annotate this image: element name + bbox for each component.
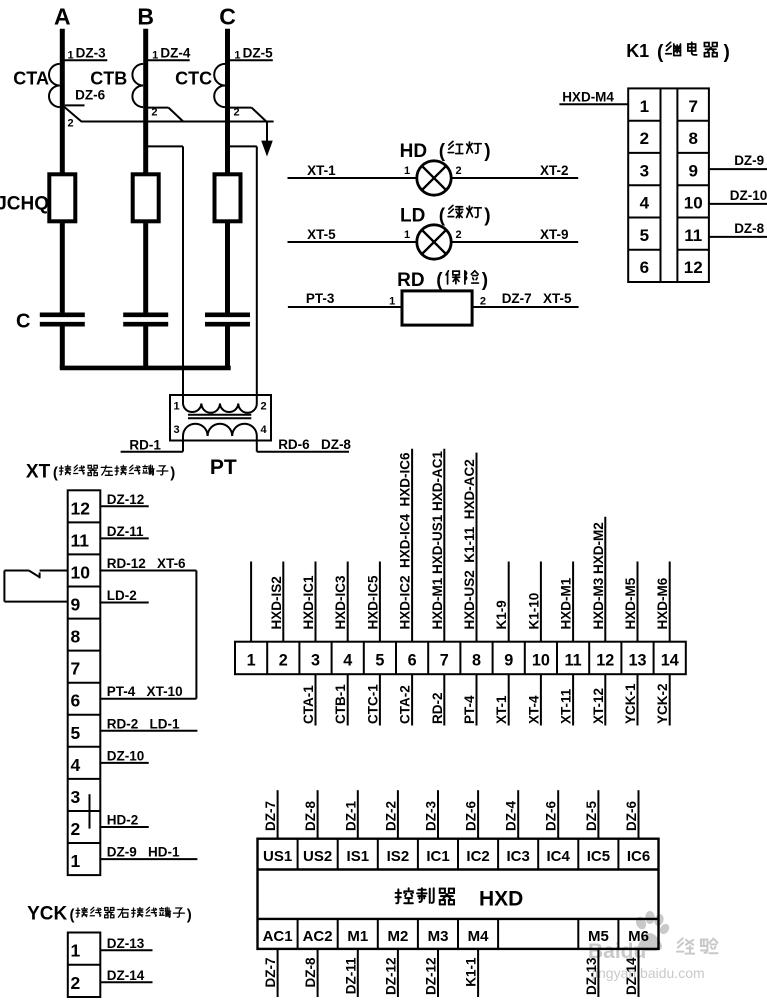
svg-text:M4: M4 xyxy=(468,928,489,945)
svg-text:8: 8 xyxy=(688,129,697,148)
resistor JCHQ block phase C xyxy=(215,174,241,221)
svg-text:RD-2: RD-2 xyxy=(430,692,445,724)
svg-text:): ) xyxy=(187,907,192,924)
svg-text:): ) xyxy=(482,270,488,291)
wire branch B horizontal xyxy=(146,145,183,147)
transformer PT core xyxy=(188,414,251,416)
svg-text:13: 13 xyxy=(628,651,646,669)
svg-text:9: 9 xyxy=(504,651,513,669)
svg-text:11: 11 xyxy=(684,226,702,245)
svg-text:DZ-1: DZ-1 xyxy=(343,801,358,831)
svg-text:HD-2: HD-2 xyxy=(107,813,139,828)
svg-text:3: 3 xyxy=(173,424,179,436)
wire bracket XT10 to XT6 xyxy=(195,571,197,699)
svg-text:CTA: CTA xyxy=(13,69,49,89)
wire phase A vertical line xyxy=(60,29,65,314)
svg-text:9: 9 xyxy=(688,161,697,180)
svg-text:IC2: IC2 xyxy=(466,848,489,865)
wire HXD top DZ-5 xyxy=(597,790,599,839)
wire HXD top DZ-3 xyxy=(437,790,439,839)
svg-text:DZ-7: DZ-7 xyxy=(263,958,278,988)
svg-text:DZ-9: DZ-9 xyxy=(734,153,764,168)
wire branch B vertical to PT pin1 xyxy=(182,146,184,403)
wire CT pin2 tap xyxy=(146,107,169,109)
wire XT cell 12 DZ-12 xyxy=(100,505,148,507)
svg-text:): ) xyxy=(484,205,490,226)
svg-text:DZ-5: DZ-5 xyxy=(243,45,273,60)
wire connector pin 8 lower xyxy=(476,674,478,725)
svg-text:K1-10: K1-10 xyxy=(526,593,541,630)
wire HXD bottom K1-1 xyxy=(477,949,479,997)
wire XT cell 9 LD-2 xyxy=(100,602,148,604)
wire RD-6 DZ-8 xyxy=(257,451,349,453)
wire HD to XT-2 xyxy=(451,177,578,179)
switch between XT10 and XT9 xyxy=(4,570,29,572)
svg-text:DZ-9 HD-1: DZ-9 HD-1 xyxy=(107,845,180,860)
svg-text:RD-6 DZ-8: RD-6 DZ-8 xyxy=(278,437,351,452)
wire PT pin3 stub xyxy=(182,436,184,452)
svg-text:HXD-IC1: HXD-IC1 xyxy=(301,575,316,629)
wire connector pin 4 upper xyxy=(347,562,349,642)
wire connector pin 3 lower xyxy=(315,674,317,725)
wire CTA slant to bus xyxy=(64,106,82,121)
svg-text:6: 6 xyxy=(640,258,649,277)
wire connector pin 12 lower xyxy=(604,674,606,725)
svg-text:XT-9: XT-9 xyxy=(540,227,569,242)
resistor JCHQ block phase A xyxy=(49,174,75,221)
svg-text:(: ( xyxy=(439,205,446,226)
wire HXD bottom DZ-7 xyxy=(277,949,279,997)
svg-text:2: 2 xyxy=(71,819,81,839)
svg-text:PT: PT xyxy=(210,456,237,479)
wire YCK1 DZ-13 xyxy=(100,949,152,951)
wire slant to bus xyxy=(252,108,267,122)
transformer CTC coil arcs xyxy=(214,64,225,107)
svg-text:RD-2 LD-1: RD-2 LD-1 xyxy=(107,716,180,731)
lamp LD circle xyxy=(417,225,451,259)
wire connector pin 4 lower xyxy=(347,674,349,725)
wire HXD top DZ-8 xyxy=(317,790,319,839)
wire HXD bottom DZ-11 xyxy=(357,949,359,997)
wire connector pin 8 upper xyxy=(476,453,478,642)
wire HXD top DZ-7 xyxy=(277,790,279,839)
wire YCK2 DZ-14 xyxy=(100,981,152,983)
svg-text:7: 7 xyxy=(440,651,449,669)
svg-text:3: 3 xyxy=(640,161,649,180)
svg-text:XT: XT xyxy=(26,461,51,482)
svg-text:1: 1 xyxy=(173,400,179,412)
svg-text:PT-4: PT-4 xyxy=(462,695,477,724)
svg-text:DZ-10: DZ-10 xyxy=(107,748,145,763)
svg-text:XT-4: XT-4 xyxy=(526,695,541,724)
wire connector pin 11 upper xyxy=(572,562,574,642)
wire HXD top DZ-6 xyxy=(557,790,559,839)
wire connector pin 5 lower xyxy=(379,674,381,725)
svg-text:3: 3 xyxy=(311,651,320,669)
svg-text:DZ-14: DZ-14 xyxy=(624,957,639,995)
wire connector pin 2 upper xyxy=(282,562,284,642)
svg-text:RD-12 XT-6: RD-12 XT-6 xyxy=(107,556,186,571)
svg-text:DZ-12: DZ-12 xyxy=(383,958,398,996)
svg-text:DZ-3: DZ-3 xyxy=(76,45,106,60)
svg-text:12: 12 xyxy=(684,258,703,277)
relay K1 body xyxy=(628,88,709,282)
svg-text:DZ-13: DZ-13 xyxy=(584,957,599,995)
transformer PT box xyxy=(170,395,271,441)
wire HXD bottom DZ-14 xyxy=(638,949,640,997)
svg-text:YCK-1: YCK-1 xyxy=(623,683,638,724)
svg-text:): ) xyxy=(170,464,175,481)
svg-text:8: 8 xyxy=(472,651,481,669)
wire connector pin 9 lower xyxy=(508,674,510,725)
svg-text:DZ-4: DZ-4 xyxy=(504,801,519,831)
wire K1 pin9 DZ-9 xyxy=(709,168,767,170)
svg-text:2: 2 xyxy=(640,129,649,148)
svg-text:DZ-11: DZ-11 xyxy=(107,524,144,539)
svg-text:2: 2 xyxy=(151,107,157,119)
svg-text:HXD-M5: HXD-M5 xyxy=(623,577,638,629)
svg-text:DZ-6: DZ-6 xyxy=(464,801,479,831)
svg-text:12: 12 xyxy=(71,498,91,518)
lamp HD cross xyxy=(422,166,446,190)
wire HXD bottom DZ-13 xyxy=(597,949,599,997)
svg-text:HXD-M6: HXD-M6 xyxy=(655,577,670,629)
svg-text:YCK-2: YCK-2 xyxy=(655,683,670,724)
svg-text:B: B xyxy=(137,4,154,30)
wire connector pin 1 upper xyxy=(250,562,252,642)
svg-text:1: 1 xyxy=(234,50,240,62)
svg-text:1: 1 xyxy=(247,651,256,669)
wire RD to DZ-7 XT-5 xyxy=(472,306,578,308)
wire connector pin 14 lower xyxy=(669,674,671,725)
svg-text:5: 5 xyxy=(71,723,81,743)
svg-text:IC1: IC1 xyxy=(426,848,449,865)
svg-text:): ) xyxy=(724,42,730,63)
svg-text:XT-5: XT-5 xyxy=(307,227,336,242)
wire CT pin2 tap xyxy=(228,107,252,109)
svg-text:2: 2 xyxy=(456,229,462,241)
svg-text:10: 10 xyxy=(71,563,91,583)
svg-text:2: 2 xyxy=(233,107,239,119)
svg-text:K1: K1 xyxy=(626,41,649,61)
svg-text:4: 4 xyxy=(71,755,81,775)
wire branch C vertical to PT pin2 xyxy=(256,146,258,403)
lamp LD cross xyxy=(422,230,446,254)
wire connector pin 13 upper xyxy=(637,562,639,642)
svg-text:PT-3: PT-3 xyxy=(306,291,335,306)
svg-text:DZ-7: DZ-7 xyxy=(263,801,278,831)
svg-text:2: 2 xyxy=(456,165,462,177)
svg-text:2: 2 xyxy=(279,651,288,669)
svg-text:HXD-IC5: HXD-IC5 xyxy=(365,575,380,629)
wire LD to XT-9 xyxy=(451,241,578,243)
svg-text:1: 1 xyxy=(404,229,410,241)
svg-text:1: 1 xyxy=(67,50,73,62)
svg-text:4: 4 xyxy=(343,651,352,669)
transformer PT primary winding xyxy=(183,404,257,413)
svg-text:jingyan.baidu.com: jingyan.baidu.com xyxy=(591,965,705,981)
wire HXD top DZ-4 xyxy=(517,790,519,839)
svg-text:DZ-6: DZ-6 xyxy=(75,88,105,103)
jumper XT3 to XT2 xyxy=(89,794,91,828)
lamp HD circle xyxy=(417,161,451,195)
svg-text:11: 11 xyxy=(565,651,582,669)
wire XT-5 to LD xyxy=(288,241,417,243)
svg-text:IC6: IC6 xyxy=(627,848,650,865)
svg-text:XT-11: XT-11 xyxy=(559,688,574,724)
svg-text:IC3: IC3 xyxy=(507,848,530,865)
transformer PT secondary winding xyxy=(183,424,257,436)
svg-text:C: C xyxy=(16,310,30,332)
wire branch C horizontal xyxy=(228,145,257,147)
wire CTC pin1 tap to DZ-5 xyxy=(228,59,273,61)
svg-text:4: 4 xyxy=(640,194,650,213)
wire PT-3 to RD xyxy=(288,306,402,308)
svg-text:7: 7 xyxy=(71,659,81,679)
wire connector pin 6 lower xyxy=(411,674,413,725)
svg-text:XT-12: XT-12 xyxy=(591,688,606,724)
svg-text:5: 5 xyxy=(640,226,649,245)
svg-text:2: 2 xyxy=(68,117,74,129)
svg-text:6: 6 xyxy=(408,651,417,669)
wire connector pin 10 upper xyxy=(540,562,542,642)
decorative watermark (not labeled further) xyxy=(588,911,717,981)
svg-text:RD: RD xyxy=(397,270,424,291)
svg-text:10: 10 xyxy=(684,194,703,213)
terminal strip XT body xyxy=(68,490,101,875)
wire switch loop left xyxy=(3,571,5,602)
svg-text:DZ-3: DZ-3 xyxy=(424,801,439,831)
capacitor phase A xyxy=(40,312,85,317)
svg-text:AC1: AC1 xyxy=(263,928,293,945)
svg-text:CTC-1: CTC-1 xyxy=(365,684,380,724)
svg-text:LD-2: LD-2 xyxy=(107,588,137,603)
svg-text:1: 1 xyxy=(404,165,410,177)
svg-text:DZ-6: DZ-6 xyxy=(624,801,639,831)
svg-text:1: 1 xyxy=(389,296,395,308)
svg-text:CTB-1: CTB-1 xyxy=(333,684,348,724)
svg-text:C: C xyxy=(219,4,236,30)
svg-text:US2: US2 xyxy=(303,848,332,865)
svg-text:K1-9: K1-9 xyxy=(494,600,509,629)
svg-text:IS1: IS1 xyxy=(347,848,370,865)
wire CTA pin1 tap to DZ-3 xyxy=(62,59,107,61)
svg-text:1: 1 xyxy=(71,851,81,871)
svg-text:DZ-8: DZ-8 xyxy=(303,801,318,831)
svg-text:XT-1: XT-1 xyxy=(307,163,336,178)
wire XT cell 1 DZ-9 HD-1 xyxy=(100,858,197,860)
svg-text:DZ-4: DZ-4 xyxy=(160,45,190,60)
svg-text:DZ-8: DZ-8 xyxy=(303,957,318,987)
transformer CTA coil arcs xyxy=(49,64,60,107)
svg-text:(: ( xyxy=(439,141,446,162)
terminal strip YCK body xyxy=(68,933,101,998)
wire phase C vertical line xyxy=(225,29,230,314)
capacitor phase B xyxy=(123,312,168,317)
fuse RD body xyxy=(402,291,472,325)
wire HXD top DZ-6 xyxy=(638,790,640,839)
svg-text:5: 5 xyxy=(375,651,384,669)
svg-text:LD: LD xyxy=(400,205,425,226)
resistor JCHQ block phase B xyxy=(133,174,159,221)
svg-text:DZ-2: DZ-2 xyxy=(383,801,398,831)
wire bottom bus xyxy=(60,366,231,371)
wire HXD bottom DZ-12 xyxy=(437,949,439,997)
wire HXD top DZ-1 xyxy=(357,790,359,839)
svg-text:PT-4 XT-10: PT-4 XT-10 xyxy=(107,684,183,699)
svg-text:8: 8 xyxy=(71,627,81,647)
svg-text:1: 1 xyxy=(71,941,81,961)
wire HXD-M4 to K1 pin1 xyxy=(559,103,628,105)
wire CTA pin2 tap DZ-6 xyxy=(65,104,85,106)
controller HXD outer body xyxy=(258,839,659,949)
wire connector pin 9 upper xyxy=(508,562,510,642)
svg-text:7: 7 xyxy=(688,97,697,116)
controller HXD name chinese xyxy=(396,888,413,903)
wire XT-1 to HD xyxy=(288,177,417,179)
svg-text:3: 3 xyxy=(71,787,81,807)
capacitor phase C xyxy=(205,312,250,317)
wire connector pin 14 upper xyxy=(669,562,671,642)
svg-text:2: 2 xyxy=(480,296,486,308)
svg-text:DZ-14: DZ-14 xyxy=(107,968,145,983)
wire connector pin 5 upper xyxy=(379,562,381,642)
wire XT cell 6 PT-4 XT-10 xyxy=(100,698,196,700)
svg-text:2: 2 xyxy=(260,400,266,412)
svg-text:(: ( xyxy=(70,907,75,924)
ground arrow head xyxy=(261,141,273,157)
svg-text:HD: HD xyxy=(400,141,427,162)
svg-text:DZ-6: DZ-6 xyxy=(544,801,559,831)
svg-text:HXD-US2 K1-11 HXD-AC2: HXD-US2 K1-11 HXD-AC2 xyxy=(462,459,477,629)
wire connector pin 7 upper xyxy=(443,449,445,642)
wire XT cell 11 DZ-11 xyxy=(100,537,148,539)
svg-text:9: 9 xyxy=(71,595,81,615)
svg-text:AC2: AC2 xyxy=(303,928,333,945)
svg-text:12: 12 xyxy=(596,651,614,669)
svg-text:A: A xyxy=(54,4,71,30)
wire HXD bottom DZ-8 xyxy=(317,949,319,997)
wire K1 pin11 DZ-8 xyxy=(709,236,767,238)
svg-text:CTA-2: CTA-2 xyxy=(398,685,413,724)
svg-text:DZ-12: DZ-12 xyxy=(107,492,145,507)
svg-text:XT-2: XT-2 xyxy=(540,163,569,178)
svg-text:6: 6 xyxy=(71,691,81,711)
svg-text:US1: US1 xyxy=(263,848,292,865)
wire connector pin 6 upper xyxy=(411,449,413,642)
wire XT cell 10 RD-12 XT-6 xyxy=(100,570,196,572)
svg-text:M2: M2 xyxy=(387,928,408,945)
svg-text:IC5: IC5 xyxy=(587,848,610,865)
wire CT secondary bus xyxy=(81,121,274,123)
svg-text:HXD-M1 HXD-US1 HXD-AC1: HXD-M1 HXD-US1 HXD-AC1 xyxy=(430,450,445,629)
svg-text:IC4: IC4 xyxy=(547,848,571,865)
wire connector pin 7 lower xyxy=(443,674,445,725)
transformer CTB coil arcs xyxy=(132,64,143,107)
svg-text:YCK: YCK xyxy=(27,904,67,925)
svg-text:JCHQ: JCHQ xyxy=(0,194,49,215)
svg-text:CTC: CTC xyxy=(175,69,212,89)
svg-text:HXD-IS2: HXD-IS2 xyxy=(269,576,284,629)
svg-text:M5: M5 xyxy=(588,928,609,945)
svg-text:1: 1 xyxy=(640,97,649,116)
svg-text:M1: M1 xyxy=(347,928,368,945)
svg-text:CTA-1: CTA-1 xyxy=(301,685,316,724)
wire connector pin 10 lower xyxy=(540,674,542,725)
wire connector pin 13 lower xyxy=(637,674,639,725)
svg-text:IS2: IS2 xyxy=(387,848,410,865)
wire connector pin 12 upper xyxy=(604,517,606,642)
svg-text:DZ-10: DZ-10 xyxy=(730,188,767,203)
svg-text:M6: M6 xyxy=(628,928,649,945)
wire connector pin 11 lower xyxy=(572,674,574,725)
connector 14-pin body xyxy=(235,642,686,675)
svg-text:DZ-12: DZ-12 xyxy=(424,958,439,996)
svg-text:M3: M3 xyxy=(428,928,449,945)
svg-text:HXD-M4: HXD-M4 xyxy=(562,90,614,105)
wire arrow stem xyxy=(266,122,268,142)
svg-text:HXD-M1: HXD-M1 xyxy=(559,577,574,629)
svg-text:DZ-8: DZ-8 xyxy=(734,221,764,236)
wire slant to bus xyxy=(169,108,184,122)
svg-text:DZ-13: DZ-13 xyxy=(107,936,145,951)
wire CTB pin1 tap to DZ-4 xyxy=(146,59,190,61)
wire HXD top DZ-2 xyxy=(397,790,399,839)
svg-text:14: 14 xyxy=(661,651,679,669)
wire HXD bottom DZ-12 xyxy=(397,949,399,997)
svg-text:2: 2 xyxy=(71,973,81,993)
svg-text:HXD: HXD xyxy=(479,888,523,911)
svg-text:(: ( xyxy=(436,270,443,291)
svg-text:(: ( xyxy=(53,464,58,481)
wire connector pin 3 upper xyxy=(315,562,317,642)
svg-text:1: 1 xyxy=(152,50,158,62)
svg-text:HXD-IC3: HXD-IC3 xyxy=(333,575,348,629)
svg-text:HXD-IC2 HXD-IC4 HXD-IC6: HXD-IC2 HXD-IC4 HXD-IC6 xyxy=(398,452,413,630)
wire phase B vertical line xyxy=(143,29,148,314)
svg-text:RD-1: RD-1 xyxy=(129,438,161,453)
wire RD-1 xyxy=(121,451,183,453)
wire K1 pin10 DZ-10 xyxy=(709,203,767,205)
svg-text:K1-1: K1-1 xyxy=(464,957,479,987)
wire HXD top DZ-6 xyxy=(477,790,479,839)
svg-text:XT-1: XT-1 xyxy=(494,695,509,724)
wire XT cell 5 RD-2 LD-1 xyxy=(100,730,197,732)
svg-text:CTB: CTB xyxy=(90,69,127,89)
wire XT cell 4 DZ-10 xyxy=(100,762,148,764)
svg-text:11: 11 xyxy=(71,530,90,550)
svg-text:DZ-5: DZ-5 xyxy=(584,801,599,831)
svg-text:10: 10 xyxy=(532,651,550,669)
svg-text:4: 4 xyxy=(260,424,267,436)
svg-text:(: ( xyxy=(657,42,664,63)
svg-text:HXD-M3 HXD-M2: HXD-M3 HXD-M2 xyxy=(591,522,606,629)
wire PT pin4 stub xyxy=(256,436,258,452)
svg-text:DZ-7 XT-5: DZ-7 XT-5 xyxy=(502,291,572,306)
svg-text:): ) xyxy=(484,141,490,162)
wire XT cell 2 HD-2 xyxy=(100,826,148,828)
svg-text:DZ-11: DZ-11 xyxy=(343,957,358,994)
